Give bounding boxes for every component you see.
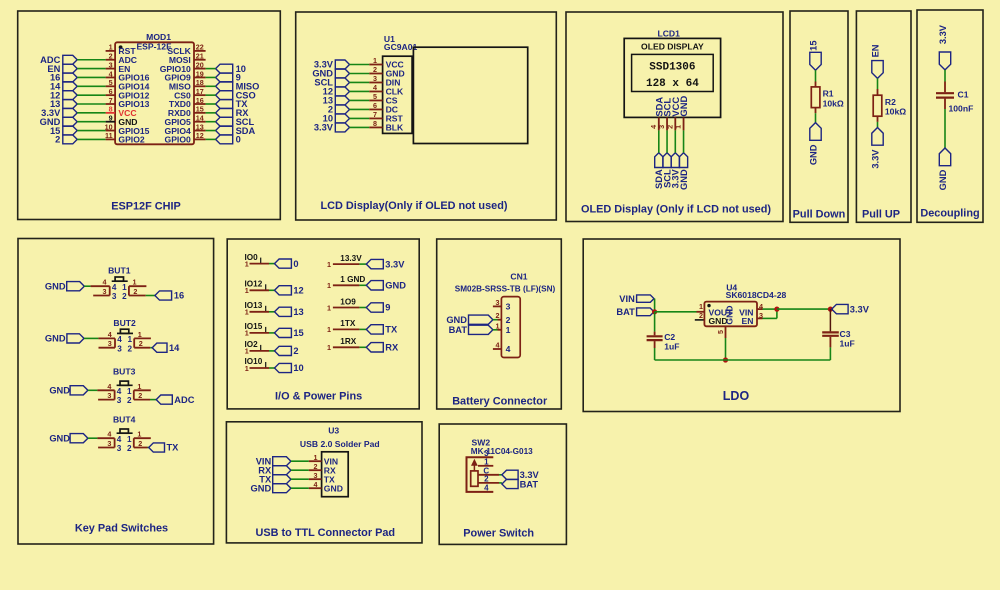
hierarchical label GND (BUT2): [45, 334, 84, 344]
hierarchical label SCL (ESP right): [216, 117, 255, 127]
hierarchical label RX (I/O right column): [366, 343, 399, 353]
svg-text:4: 4: [107, 382, 111, 391]
svg-text:R2: R2: [885, 97, 896, 107]
LCD display panel outline: [413, 47, 527, 143]
hierarchical label 12 (I/O left column): [275, 286, 304, 296]
wire MOD1 pin 13 to SDA: [206, 130, 216, 132]
hierarchical label VIN (LDO input): [619, 294, 654, 304]
svg-text:GPIO2: GPIO2: [118, 135, 144, 145]
resistor R2 10k: [873, 89, 906, 122]
svg-text:2: 2: [373, 65, 377, 74]
svg-text:BAT: BAT: [449, 325, 468, 335]
MOD1 pin 22 SCLK (right): [167, 43, 205, 56]
svg-text:1: 1: [138, 330, 142, 339]
wire BUT3 pin 2 to ADC: [150, 399, 156, 401]
wire 12 to MOD1 pin 6: [77, 94, 105, 96]
hierarchical label 3.3V (I/O right column): [366, 259, 405, 269]
svg-text:4: 4: [103, 278, 107, 287]
wire U4 pin 3 EN to output node: [763, 309, 777, 318]
hierarchical label 10 (ESP right): [216, 64, 246, 74]
svg-text:4: 4: [314, 480, 318, 489]
svg-text:18: 18: [196, 78, 204, 87]
wire IO2 to label 2: [269, 350, 275, 352]
svg-text:4: 4: [117, 387, 122, 396]
switch BUT2 body: [98, 329, 150, 353]
svg-text:USB to TTL Connector Pad: USB to TTL Connector Pad: [256, 527, 396, 539]
svg-text:1: 1: [137, 430, 141, 439]
I/O pin header RX (right column): [327, 337, 359, 352]
svg-text:SW2: SW2: [472, 437, 491, 447]
svg-text:2: 2: [122, 292, 127, 301]
hierarchical label 15 (ESP left): [50, 126, 77, 136]
svg-text:4: 4: [117, 335, 122, 344]
U1 pin 7 RST: [369, 110, 403, 124]
svg-text:SM02B-SRSS-TB (LF)(SN): SM02B-SRSS-TB (LF)(SN): [455, 285, 556, 294]
svg-text:1: 1: [373, 56, 377, 65]
svg-text:EN: EN: [742, 316, 754, 326]
svg-text:3: 3: [117, 344, 122, 353]
switch BUT4 label: [113, 414, 136, 424]
svg-text:3: 3: [103, 287, 107, 296]
wire SW2 pin 2 to BAT: [499, 482, 502, 484]
wire MOD1 pin 19 to 9: [206, 76, 216, 78]
svg-text:2: 2: [506, 315, 511, 325]
wire LCD1 pin 1 to GND: [683, 130, 685, 152]
svg-text:BUT3: BUT3: [113, 367, 136, 377]
svg-text:2: 2: [127, 344, 132, 353]
I/O pin header IO13: [245, 301, 270, 317]
svg-text:3: 3: [314, 471, 318, 480]
wire MOD1 pin 18 to MISO: [206, 85, 216, 87]
wire 2 to MOD1 pin 11: [77, 138, 105, 140]
capacitor C3 1uF: [822, 309, 855, 348]
svg-text:4: 4: [109, 69, 113, 78]
I/O pin header 3.3V (right column): [327, 254, 362, 269]
I/O pin header TX (right column): [327, 319, 359, 334]
I/O pin header 9 (right column): [327, 297, 359, 312]
svg-text:Pull UP: Pull UP: [862, 209, 900, 221]
hierarchical label 9 (ESP right): [216, 73, 241, 83]
svg-text:GND: GND: [385, 281, 406, 291]
svg-text:1TX: 1TX: [340, 319, 356, 328]
svg-text:3: 3: [107, 391, 111, 400]
hierarchical label 3.3V (pull-up bottom): [871, 128, 884, 169]
svg-text:3: 3: [107, 439, 111, 448]
U1 pin 4 CLK: [369, 83, 404, 97]
hierarchical label ADC (BUT3): [156, 395, 195, 405]
connector U3 body: [322, 452, 349, 497]
wire GND to U1 pin 2: [350, 72, 370, 74]
connector U1 reference and value GC9A01: [384, 34, 418, 52]
svg-text:LCD1: LCD1: [657, 28, 680, 38]
hierarchical label SCL (LCD row 3): [314, 78, 349, 88]
wire ADC to MOD1 pin 2: [77, 59, 105, 61]
svg-text:5: 5: [373, 92, 377, 101]
I/O pin header GND (right column): [327, 275, 365, 290]
I/O pin header IO12: [245, 280, 270, 296]
I/O pin header IO15: [245, 322, 270, 338]
svg-text:7: 7: [373, 110, 377, 119]
svg-text:13: 13: [196, 122, 204, 131]
wire IO12 to label 12: [269, 289, 275, 291]
wire to label TX: [359, 328, 366, 330]
hierarchical label 12 (ESP left): [50, 90, 77, 100]
svg-text:1: 1: [506, 325, 511, 335]
svg-text:21: 21: [196, 52, 204, 61]
svg-text:128 x 64: 128 x 64: [646, 78, 699, 90]
MOD1 pin 11 GPIO2 (left): [105, 131, 145, 144]
svg-text:2: 2: [109, 52, 113, 61]
hierarchical label VIN (USB): [256, 456, 291, 466]
resistor R1 10k: [811, 82, 844, 114]
svg-text:USB 2.0 Solder Pad: USB 2.0 Solder Pad: [300, 439, 380, 449]
wire 13 to U1 pin 5: [350, 99, 370, 101]
wire VIN to U3 pin 1: [291, 460, 309, 462]
svg-text:SK6018CD4-28: SK6018CD4-28: [726, 290, 787, 300]
svg-text:3.3V: 3.3V: [938, 24, 948, 44]
svg-text:4: 4: [373, 83, 377, 92]
wire GND to BUT4 pin 4: [88, 437, 98, 439]
MOD1 pin 2 ADC (left): [106, 52, 137, 65]
wire 15 to R1: [815, 70, 817, 81]
hierarchical label SDA (OLED, points up): [654, 153, 664, 189]
wire U4 pin 4 VIN to output node: [763, 308, 777, 310]
hierarchical label CSO (ESP right): [216, 90, 256, 100]
MOD1 pin 16 TXD0 (right): [169, 96, 206, 109]
junction 3.3V-C3 node: [828, 307, 833, 312]
wire 3.3V to C1: [944, 70, 946, 82]
MOD1 pin 19 GPIO9 (right): [165, 69, 206, 82]
svg-text:Key Pad Switches: Key Pad Switches: [75, 523, 168, 535]
svg-text:GND: GND: [938, 169, 948, 190]
hierarchical label GND (BUT3): [49, 386, 88, 396]
svg-text:4: 4: [484, 484, 489, 493]
svg-text:2: 2: [496, 311, 500, 320]
wire 16 to MOD1 pin 4: [77, 76, 105, 78]
svg-text:GND: GND: [45, 281, 66, 291]
svg-text:GND: GND: [678, 96, 689, 117]
svg-text:16: 16: [174, 291, 184, 301]
svg-text:SSD1306: SSD1306: [649, 61, 695, 73]
svg-text:1 GND: 1 GND: [340, 275, 365, 284]
hierarchical label 10 (I/O left column): [275, 363, 304, 373]
wire MOD1 pin 12 to 0: [206, 138, 216, 140]
svg-text:3: 3: [373, 74, 377, 83]
wire BAT node to U4 pin 1 VOUT: [655, 311, 697, 313]
svg-text:14: 14: [196, 114, 204, 123]
svg-text:1: 1: [314, 453, 318, 462]
svg-text:1: 1: [127, 435, 132, 444]
svg-text:2: 2: [293, 346, 298, 356]
svg-text:LDO: LDO: [723, 389, 750, 403]
svg-text:ESP-12F: ESP-12F: [136, 42, 171, 52]
svg-text:3: 3: [117, 444, 122, 453]
svg-text:Power Switch: Power Switch: [463, 528, 534, 540]
I/O pin header IO10: [245, 357, 270, 373]
MOD1 pin 21 MOSI (right): [169, 52, 206, 65]
svg-text:17: 17: [196, 87, 204, 96]
svg-text:1: 1: [699, 302, 703, 311]
hierarchical label 15 (I/O left column): [275, 328, 304, 338]
svg-text:1uF: 1uF: [664, 341, 679, 351]
LCD1 pin 3 SCL (bottom): [657, 98, 673, 131]
hierarchical label 14 (ESP left): [50, 82, 77, 92]
hierarchical label 3.3V (ESP left): [41, 108, 77, 118]
svg-text:100nF: 100nF: [949, 104, 974, 114]
svg-text:15: 15: [196, 105, 204, 114]
hierarchical label 13 (I/O left column): [275, 307, 304, 317]
svg-text:GND: GND: [446, 315, 467, 325]
svg-text:Battery Connector: Battery Connector: [452, 396, 548, 408]
hierarchical label 3.3V (LDO output): [832, 304, 870, 314]
svg-text:2: 2: [699, 311, 703, 320]
svg-text:4: 4: [107, 430, 111, 439]
wire 15 to MOD1 pin 10: [77, 130, 105, 132]
switch BUT1 label: [108, 266, 131, 276]
wire SCL to U1 pin 3: [350, 81, 370, 83]
svg-text:3: 3: [112, 292, 117, 301]
svg-text:1: 1: [133, 278, 137, 287]
svg-text:1: 1: [245, 286, 249, 295]
wire LCD1 pin 4 to SDA: [658, 130, 660, 152]
MOD1 pin 15 RXD0 (right): [168, 105, 206, 118]
svg-text:ADC: ADC: [174, 395, 194, 405]
wire MOD1 pin 20 to 10: [206, 68, 216, 70]
wire 3.3V to U1 pin 1: [350, 64, 370, 66]
CN1 pin 2: [496, 311, 511, 325]
svg-text:19: 19: [196, 69, 204, 78]
hierarchical label GND (BUT1): [45, 281, 84, 291]
svg-text:2: 2: [138, 439, 142, 448]
LCD1 pin 4 SDA (bottom): [649, 97, 665, 131]
connector CN1 body: [501, 297, 520, 358]
hierarchical label 3.3V (OLED, points up): [671, 153, 681, 189]
svg-text:1uF: 1uF: [840, 338, 855, 348]
hierarchical label TX (I/O right column): [366, 325, 398, 335]
regulator U4 body: [695, 302, 763, 338]
section box: OLED Display (Only if LCD not used): [566, 12, 783, 222]
hierarchical label GND (pull-down bottom): [809, 123, 822, 166]
MOD1 pin 9 GND (left): [106, 114, 138, 127]
section box: Decoupling: [917, 10, 983, 222]
svg-text:1: 1: [484, 457, 489, 466]
switch SW2 body: [467, 449, 500, 493]
svg-text:9: 9: [385, 303, 390, 313]
wire 3.3V to MOD1 pin 8: [77, 112, 105, 114]
svg-text:16: 16: [196, 96, 204, 105]
U1 pin 5 CS: [369, 92, 398, 106]
wire GND to MOD1 pin 9: [77, 121, 105, 123]
svg-text:1: 1: [327, 343, 331, 352]
hierarchical label RX (USB): [258, 465, 291, 475]
wire BUT1 pin 2 to 16: [146, 295, 155, 297]
hierarchical label 3.3V (LCD row 1): [314, 60, 350, 70]
svg-text:3.3V: 3.3V: [871, 149, 881, 169]
svg-text:2: 2: [127, 444, 132, 453]
svg-text:GC9A01: GC9A01: [384, 42, 418, 52]
U1 pin 3 DIN: [369, 74, 400, 88]
wire RX to U3 pin 2: [291, 469, 309, 471]
svg-text:4: 4: [117, 435, 122, 444]
svg-text:10: 10: [293, 363, 303, 373]
wire MOD1 pin 14 to SCL: [206, 121, 216, 123]
svg-text:2: 2: [127, 396, 132, 405]
wire R2 to 3.3V: [877, 122, 879, 128]
section box: USB to TTL Connector Pad: [226, 422, 422, 543]
svg-text:GND: GND: [49, 433, 70, 443]
hierarchical label GND (battery): [446, 315, 493, 325]
svg-text:GND: GND: [724, 305, 734, 324]
svg-text:1: 1: [674, 125, 683, 129]
capacitor C1 100nF: [936, 82, 973, 114]
hierarchical label 2 (LCD row 6): [328, 105, 350, 115]
I/O pin header IO2: [245, 340, 270, 356]
wire 12 to U1 pin 4: [350, 90, 370, 92]
section box: Pull UP: [856, 11, 911, 222]
hierarchical label 0 (I/O left column): [275, 259, 299, 269]
wire to label 3.3V: [359, 263, 366, 265]
MOD1 pin 10 GPIO15 (left): [105, 122, 150, 135]
MOD1 pin 12 GPIO0 (right): [165, 131, 206, 144]
hierarchical label 0 (ESP right): [216, 135, 241, 145]
wire MOD1 pin 17 to CSO: [206, 94, 216, 96]
svg-text:BAT: BAT: [520, 479, 539, 489]
svg-text:2: 2: [484, 475, 489, 484]
svg-text:2: 2: [314, 462, 318, 471]
hierarchical label GND (OLED, points up): [679, 153, 689, 190]
wire to label GND: [359, 284, 366, 286]
svg-text:3: 3: [108, 339, 112, 348]
svg-text:22: 22: [196, 43, 204, 52]
svg-text:2: 2: [139, 339, 143, 348]
svg-text:GPIO0: GPIO0: [165, 135, 191, 145]
svg-text:1: 1: [327, 325, 331, 334]
hierarchical label SCL (OLED, points up): [662, 153, 672, 188]
section box: Power Switch: [439, 424, 566, 544]
svg-text:RX: RX: [385, 343, 399, 353]
wire IO13 to label 13: [269, 311, 275, 313]
svg-text:5: 5: [716, 330, 725, 334]
display LCD1 reference label: [657, 28, 680, 38]
wire BUT4 pin 2 to TX: [148, 447, 149, 449]
svg-text:OLED Display (Only if LCD not: OLED Display (Only if LCD not used): [581, 203, 771, 215]
MOD1 pin 14 GPIO5 (right): [165, 114, 206, 127]
regulator U4 reference and value SK6018CD4-28: [726, 283, 787, 300]
svg-text:3: 3: [506, 302, 511, 312]
CN1 pin 1: [496, 321, 511, 335]
hierarchical label GND (decoupling bottom): [938, 148, 951, 190]
svg-text:CN1: CN1: [510, 272, 527, 282]
hierarchical label 16 (ESP left): [50, 73, 77, 83]
wire EN to MOD1 pin 3: [77, 68, 105, 70]
switch BUT2 label: [113, 318, 136, 328]
hierarchical label 14 (BUT2): [152, 343, 180, 353]
CN1 pin 4: [493, 341, 511, 355]
hierarchical label 12 (LCD row 4): [323, 87, 350, 97]
wire GND to CN1 pin 2: [493, 319, 498, 321]
hierarchical label GND (BUT4): [49, 433, 88, 443]
svg-text:10: 10: [105, 122, 113, 131]
section box: LDO: [583, 239, 900, 412]
svg-text:15: 15: [809, 41, 819, 51]
svg-text:4: 4: [112, 283, 117, 292]
svg-text:3.3V: 3.3V: [385, 259, 405, 269]
svg-text:TX: TX: [167, 443, 180, 453]
section box: Battery Connector: [437, 239, 562, 409]
connector U3 reference and value: [300, 426, 380, 449]
wire MOD1 pin 16 to TX: [206, 103, 216, 105]
wire LCD1 pin 3 to SCL: [666, 130, 668, 152]
MOD1 pin 1 RST (left): [106, 43, 137, 56]
svg-text:3: 3: [117, 396, 122, 405]
switch SW2 reference and value: [471, 437, 533, 456]
wire output node to 3.3V label: [777, 308, 831, 310]
svg-text:3: 3: [496, 298, 500, 307]
svg-text:C1: C1: [958, 90, 969, 100]
svg-text:BUT1: BUT1: [108, 266, 131, 276]
wire VIN/BAT junction vertical: [654, 299, 656, 312]
svg-text:20: 20: [196, 60, 204, 69]
svg-text:1: 1: [327, 303, 331, 312]
hierarchical label GND (ESP left): [40, 117, 78, 127]
svg-text:TX: TX: [385, 325, 398, 335]
wire C1 to GND: [944, 109, 946, 148]
MOD1 pin 4 GPIO16 (left): [106, 69, 150, 82]
LCD1 pin 1 GND (bottom): [674, 96, 690, 131]
connector CN1 reference and value: [455, 272, 556, 294]
svg-text:2: 2: [55, 135, 60, 145]
U3 pin 4 GND: [309, 480, 343, 494]
svg-text:6: 6: [109, 87, 113, 96]
switch BUT3 label: [113, 367, 136, 377]
svg-text:1: 1: [245, 259, 249, 268]
svg-text:10kΩ: 10kΩ: [823, 98, 844, 108]
wire BAT to CN1 pin 1: [493, 329, 498, 331]
svg-text:0: 0: [236, 135, 241, 145]
section box: Pull Down: [790, 11, 848, 222]
svg-text:GND: GND: [324, 483, 343, 493]
hierarchical label 13 (ESP left): [50, 99, 77, 109]
wire 3.3V to U1 pin 8: [350, 126, 370, 128]
MOD1 pin 8 VCC (left): [106, 105, 137, 118]
hierarchical label 13 (LCD row 5): [323, 96, 350, 106]
MOD1 pin 3 EN (left): [106, 60, 131, 73]
MOD1 pin 5 GPIO14 (left): [106, 78, 150, 91]
svg-text:GND: GND: [49, 386, 70, 396]
module MOD1 ESP-12F body: [115, 42, 194, 145]
svg-text:1: 1: [327, 281, 331, 290]
svg-text:1: 1: [245, 308, 249, 317]
svg-text:12: 12: [293, 286, 303, 296]
hierarchical label GND (USB): [251, 483, 291, 493]
hierarchical label EN (pull-up top): [871, 44, 884, 78]
wire 10 to U1 pin 7: [350, 117, 370, 119]
svg-text:1: 1: [109, 43, 113, 52]
svg-text:10kΩ: 10kΩ: [885, 107, 906, 117]
hierarchical label MISO (ESP right): [216, 82, 260, 92]
U3 pin 1 VIN: [309, 453, 338, 467]
svg-text:4: 4: [108, 330, 112, 339]
wire MOD1 pin 15 to RX: [206, 112, 216, 114]
svg-text:R1: R1: [823, 89, 834, 99]
svg-text:3.3V: 3.3V: [850, 304, 870, 314]
hierarchical label 3.3V (LCD row 8): [314, 123, 350, 133]
hierarchical label BAT (battery): [449, 325, 493, 335]
svg-text:Pull Down: Pull Down: [793, 209, 846, 221]
svg-text:I/O & Power Pins: I/O & Power Pins: [275, 391, 362, 403]
svg-text:1: 1: [245, 364, 249, 373]
svg-text:1: 1: [127, 387, 132, 396]
